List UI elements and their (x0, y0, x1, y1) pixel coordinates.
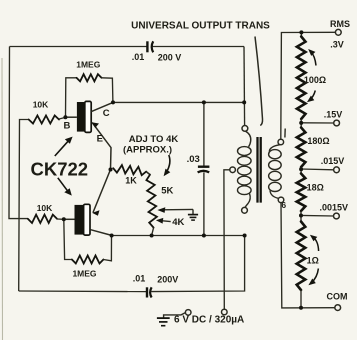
svg-text:UNIVERSAL OUTPUT TRANS: UNIVERSAL OUTPUT TRANS (131, 21, 270, 32)
svg-text:ADJ TO 4K: ADJ TO 4K (129, 134, 179, 145)
transistor Q1 CK722 (upper) (64, 101, 114, 169)
wiper arrow to ground (162, 208, 193, 210)
ground (battery) (157, 317, 170, 319)
svg-text:.01: .01 (133, 274, 146, 284)
label CK722 with leader arrows (31, 137, 89, 196)
wire bottom rail right of C4 (151, 236, 244, 292)
resistor R1 10K (Q1 base) (29, 100, 66, 124)
tap .015V (301, 156, 344, 173)
svg-text:.01: .01 (132, 52, 145, 62)
transformer core (258, 137, 261, 203)
wire secondary bottom to ladder bottom rail (281, 203, 335, 308)
svg-text:4K: 4K (172, 217, 184, 228)
svg-text:(APPROX.): (APPROX.) (123, 145, 172, 156)
transistor Q2 CK722 (lower) (64, 170, 112, 236)
svg-text:10K: 10K (37, 203, 53, 213)
label ADJ TO 4K (APPROX.) with curved arrow (123, 134, 178, 176)
resistor R8 180 ohm (ladder) (297, 123, 330, 169)
capacitor C1 .01 200V (top coupling) (132, 41, 182, 62)
primary center tap terminal (230, 167, 236, 173)
svg-text:1MEG: 1MEG (76, 60, 100, 70)
Q1 emitter line with arrow (92, 123, 111, 170)
resistor R7 100 ohm (ladder) (297, 32, 326, 122)
resistor R4 1MEG (Q2 collector-base) (64, 219, 112, 278)
transformer T1 secondary winding (269, 129, 287, 211)
svg-text:.03: .03 (187, 154, 200, 165)
resistor R3 10K (Q2 base) (28, 203, 64, 223)
resistor R10 1 ohm (ladder) (297, 215, 319, 307)
resistor R2 1MEG (Q1 collector-base) (66, 60, 113, 118)
svg-text:1MEG: 1MEG (72, 269, 96, 279)
svg-text:200 V: 200 V (158, 53, 182, 63)
wire top corner vertical to primary top (243, 47, 246, 126)
svg-text:10K: 10K (33, 100, 49, 110)
svg-text:.015V: .015V (321, 156, 345, 166)
tap .15V (301, 110, 342, 126)
svg-text:E: E (97, 134, 103, 145)
wire Q2 collector rail (112, 235, 245, 237)
svg-text:200V: 200V (157, 275, 178, 285)
terminal COM (327, 292, 348, 311)
svg-text:COM: COM (327, 292, 348, 302)
transformer T1 UNIVERSAL OUTPUT primary winding (230, 125, 251, 213)
svg-text:CK722: CK722 (31, 159, 89, 180)
svg-text:1Ω: 1Ω (307, 256, 319, 266)
label UNIVERSAL OUTPUT TRANS with leader (131, 21, 270, 126)
tap .0015V (301, 203, 348, 219)
svg-text:1K: 1K (125, 176, 137, 186)
resistor R5 1K (emitter) (113, 165, 146, 185)
Q2 emitter line with arrow (93, 170, 111, 213)
battery terminal (ground side) (157, 310, 191, 326)
wire bottom rail left of C4 (19, 290, 147, 293)
terminal number 1 (284, 129, 286, 138)
wire secondary top to ladder top rail (281, 32, 336, 139)
Q2 collector line (91, 230, 112, 236)
svg-text:6 V DC / 320µA: 6 V DC / 320µA (174, 315, 244, 326)
ground (wiper) (192, 209, 194, 214)
wire cross-coupling vertical V2 (10K R1 left end down to bottom rail) (19, 120, 29, 292)
potentiometer R6 5K (ADJ TO 4K) (146, 172, 198, 236)
capacitor C4 .01 200V (bottom coupling) (133, 274, 179, 298)
label 6 V DC / 320uA (174, 315, 244, 326)
svg-text:180Ω: 180Ω (307, 136, 329, 146)
wire top rail right of C1 (152, 46, 244, 48)
svg-text:B: B (64, 121, 71, 132)
wire primary center tap down to battery + terminal (224, 170, 230, 309)
svg-text:5K: 5K (161, 186, 173, 197)
capacitor C2 .03 (collector-collector feedback) (187, 102, 210, 235)
svg-text:.0015V: .0015V (320, 203, 349, 213)
svg-text:6: 6 (281, 200, 286, 210)
battery terminal (center tap side) (222, 309, 228, 315)
terminal RMS (330, 19, 350, 50)
wire top rail left of C1 (10, 46, 147, 48)
svg-text:100Ω: 100Ω (304, 75, 326, 85)
svg-text:RMS: RMS (330, 19, 350, 29)
wire left vertical V1 (top rail down to 10K R3 wire) (9, 47, 28, 219)
Q1 collector line (91, 102, 113, 111)
svg-text:.3V: .3V (330, 40, 344, 50)
svg-text:C: C (103, 108, 110, 119)
scan border line (decorative-ish but drawn) (1, 58, 4, 340)
resistor R9 18 ohm (ladder) (297, 169, 324, 215)
wire Q1 collector rail (113, 101, 244, 103)
svg-text:.15V: .15V (324, 110, 343, 120)
svg-text:18Ω: 18Ω (307, 183, 324, 193)
